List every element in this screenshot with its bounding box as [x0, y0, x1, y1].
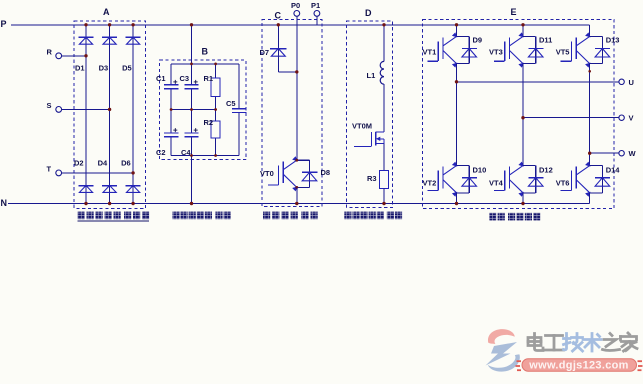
wire R2 leads [215, 110, 217, 122]
wire B mid rail [171, 109, 216, 111]
wire D7 cathode lead [277, 25, 279, 56]
diode D14 antiparallel [590, 166, 611, 193]
wire inverter leg 3 emitter to N [589, 193, 591, 204]
svg-text:R3: R3 [367, 174, 377, 183]
diode D6 [126, 186, 141, 193]
terminal P1 [311, 1, 320, 16]
section caption ni bian shu chu dian lu [489, 213, 540, 221]
svg-text:P0: P0 [291, 1, 300, 10]
terminal R [47, 47, 62, 58]
wire D column top [383, 25, 385, 62]
svg-text:D: D [365, 8, 372, 18]
svg-text:VT4: VT4 [489, 179, 504, 188]
terminal U [619, 78, 634, 87]
wire R to leg1 [62, 55, 86, 57]
svg-text:VT2: VT2 [423, 179, 437, 188]
wire C3 leads [191, 64, 193, 85]
svg-text:D4: D4 [98, 159, 108, 168]
logo text gong (gray) [545, 336, 564, 351]
transistor VT0M mosfet [354, 132, 384, 147]
transistor VT6 [561, 162, 591, 197]
logo text zhi (gray) [603, 334, 620, 351]
section box A [74, 21, 145, 208]
logo banner pill [522, 359, 637, 371]
capacitor C3 [184, 80, 198, 89]
wire P0 column [296, 16, 298, 160]
svg-text:D14: D14 [606, 166, 621, 175]
wire inverter leg 3 collector [589, 25, 591, 37]
section caption kai guan dian yuan dian lu [344, 212, 402, 220]
inductor L1 [380, 61, 384, 84]
junction N B return [190, 202, 193, 205]
node P bus [11, 24, 590, 26]
resistor R3 [380, 170, 389, 188]
terminal V [619, 114, 634, 123]
diode D5 [126, 37, 141, 44]
svg-text:R2: R2 [204, 118, 214, 127]
junction B rail [214, 108, 217, 111]
transistor VT2 [428, 162, 458, 197]
svg-text:C3: C3 [180, 74, 190, 83]
transistor VT1 [428, 32, 458, 67]
diode D1 [78, 37, 93, 44]
junction B rail [214, 63, 217, 66]
svg-text:D2: D2 [74, 159, 84, 168]
logo icon swoosh top (pink) [488, 329, 515, 344]
svg-text:R1: R1 [204, 74, 214, 83]
resistor R1 [211, 78, 220, 97]
svg-text:C: C [275, 11, 282, 21]
junction N bus leg 2 [108, 202, 111, 205]
wire P1 stub [316, 16, 318, 24]
wire B top rail [171, 63, 239, 65]
diode D2 [78, 186, 93, 193]
transistor VT5 [561, 32, 591, 67]
wire inverter leg 2 emitter to N [522, 193, 524, 204]
wire inverter leg 1 collector [456, 25, 458, 37]
wire rectifier leg 3 [132, 25, 134, 204]
capacitor C4 [184, 128, 198, 137]
diode D7 [270, 49, 286, 57]
svg-text:D7: D7 [260, 48, 270, 57]
junction B rail [214, 154, 217, 157]
diode D10 antiparallel [457, 166, 478, 193]
capacitor C1 [164, 80, 178, 89]
svg-text:U: U [629, 78, 634, 87]
svg-text:D10: D10 [473, 166, 487, 175]
svg-text:W: W [629, 149, 637, 158]
junction VT0 collector node [295, 159, 298, 162]
junction N bus leg 3 [131, 202, 134, 205]
svg-text:VT6: VT6 [556, 179, 570, 188]
junction B rail [190, 108, 193, 111]
junction P bus inverter leg 1 [455, 23, 458, 26]
transistor VT4 [494, 162, 524, 197]
wire D7 anode lead [277, 56, 279, 72]
wire inverter leg 3 midpoint [589, 64, 591, 166]
capacitor C2 [164, 128, 178, 137]
terminal S [47, 101, 62, 112]
svg-text:D11: D11 [539, 36, 552, 45]
svg-text:C2: C2 [156, 148, 166, 157]
diode D11 antiparallel [523, 36, 544, 63]
section box B [160, 60, 246, 160]
svg-text:C5: C5 [226, 99, 236, 108]
junction N bus leg 1 [84, 202, 87, 205]
junction D N bus [382, 202, 385, 205]
svg-text:T: T [47, 164, 52, 173]
svg-text:D6: D6 [121, 159, 131, 168]
logo text ji (blue) [564, 334, 583, 352]
wire C2 leads [170, 110, 172, 133]
wire R3 to N [383, 188, 385, 203]
wire VT0 emitter to N [296, 187, 298, 203]
svg-text:C4: C4 [181, 148, 191, 157]
svg-text:C1: C1 [156, 74, 166, 83]
wire C1 leads [170, 64, 172, 85]
logo icon bolt (blue) [486, 342, 518, 366]
junction B rail [170, 108, 173, 111]
svg-text:D1: D1 [75, 64, 85, 73]
resistor R2 [211, 121, 220, 138]
svg-text:D5: D5 [122, 64, 132, 73]
section caption san xiang qiao shi zheng liu dian lu [78, 212, 150, 221]
junction B rail [190, 63, 193, 66]
svg-text:VT1: VT1 [423, 48, 437, 57]
wire output V [523, 117, 619, 119]
logo text shu (blue) [583, 334, 601, 352]
svg-text:VT5: VT5 [556, 48, 570, 57]
junction P bus leg 2 [108, 23, 111, 26]
transistor VT3 [494, 32, 524, 67]
junction P bus leg 3 [131, 23, 134, 26]
wire S to leg2 [62, 108, 110, 110]
junction T leg3 [131, 171, 134, 174]
svg-text:A: A [103, 7, 110, 17]
junction N bus inverter leg 1 [455, 202, 458, 205]
junction VT0 emitter node [295, 186, 298, 189]
junction leg3 upper [588, 70, 591, 73]
wire inverter leg 1 emitter to N [456, 193, 458, 204]
diode D8 antiparallel [297, 160, 318, 187]
section box D [347, 21, 393, 208]
logo text dian gong (gray) [528, 334, 543, 351]
junction N bus inverter leg 2 [521, 202, 524, 205]
junction P bus leg 1 [84, 23, 87, 26]
terminal T [47, 164, 62, 175]
svg-text:www.dgjs123.com: www.dgjs123.com [528, 360, 628, 372]
section box E [423, 19, 615, 208]
node N bus [8, 203, 590, 205]
section caption zhi liu zhi dong dian lu [263, 212, 318, 220]
wire B bottom rail [171, 155, 239, 157]
svg-text:P: P [1, 19, 7, 29]
svg-text:VT0: VT0 [260, 169, 274, 178]
svg-text:VT3: VT3 [489, 48, 503, 57]
wire rectifier leg 1 [85, 25, 87, 204]
diode D13 antiparallel [590, 36, 611, 63]
junction B rail [190, 154, 193, 157]
capacitor C5 [232, 109, 246, 113]
junction S leg2 [108, 108, 111, 111]
svg-text:R: R [47, 47, 53, 56]
terminal P0 [291, 1, 300, 16]
svg-text:D13: D13 [606, 36, 620, 45]
junction P bus inverter leg 2 [521, 23, 524, 26]
junction P B feed [190, 23, 193, 26]
terminal W [619, 149, 637, 158]
wire inverter leg 2 midpoint [522, 64, 524, 166]
section caption chu neng lv bo dian lu [172, 212, 230, 220]
junction R leg1 [84, 54, 87, 57]
diode D4 [102, 186, 117, 193]
svg-text:N: N [1, 198, 8, 208]
junction VT0 N bus [295, 202, 298, 205]
junction D7 P0 column [295, 70, 298, 73]
wire output U [457, 81, 619, 83]
logo icon swoosh bottom (blue) [488, 354, 520, 371]
wire rectifier leg 2 [109, 25, 111, 204]
wire inverter leg 1 midpoint [456, 64, 458, 166]
logo banner left dashes [516, 361, 522, 370]
svg-text:D8: D8 [321, 168, 331, 177]
wire P to B top [191, 25, 193, 64]
diode D3 [102, 37, 117, 44]
wire C5 leads [238, 64, 240, 109]
wire L1 to mosfet [383, 84, 385, 132]
wire inverter leg 2 collector [522, 25, 524, 37]
logo text jia (gray) [621, 333, 638, 351]
junction D P bus [382, 23, 385, 26]
junction output W tap [588, 152, 591, 155]
logo banner right dashes [638, 361, 643, 370]
svg-text:V: V [629, 114, 634, 123]
svg-text:E: E [511, 7, 517, 17]
svg-text:D3: D3 [99, 64, 109, 73]
wire T to leg3 [62, 172, 134, 174]
diode D12 antiparallel [523, 166, 544, 193]
junction output U tap [455, 80, 458, 83]
junction output V tap [521, 116, 524, 119]
wire R1 leads [215, 64, 217, 78]
wire C4 leads [191, 110, 193, 133]
svg-text:L1: L1 [367, 71, 376, 80]
svg-text:B: B [202, 47, 209, 57]
svg-text:D9: D9 [473, 36, 483, 45]
wire B bottom to N [191, 156, 193, 204]
svg-text:D12: D12 [539, 166, 553, 175]
diode D9 antiparallel [457, 36, 478, 63]
svg-text:P1: P1 [311, 1, 320, 10]
section box C [262, 20, 322, 207]
wire output W [590, 152, 619, 154]
svg-text:S: S [47, 101, 52, 110]
wire mosfet to R3 [383, 143, 385, 170]
junction D7 P bus [277, 23, 280, 26]
transistor VT0 [268, 156, 298, 191]
svg-text:VT0M: VT0M [352, 122, 372, 131]
